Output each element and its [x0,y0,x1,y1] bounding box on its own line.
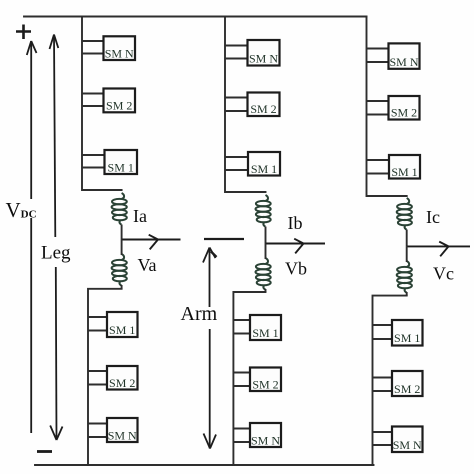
svg-text:SM N: SM N [105,47,134,61]
node B output line with current arrow Ib [266,239,326,254]
submodule SM 1 (phase A upper) [82,150,137,175]
submodule SM N (phase A lower) [88,418,138,443]
DC bus positive rail [24,16,367,18]
arm inductor (phase C lower) [397,261,412,292]
svg-text:SM 1: SM 1 [391,165,417,179]
svg-text:SM 2: SM 2 [252,378,278,392]
submodule SM 2 (phase A lower) [88,366,138,390]
node C output line with current arrow Ic [407,242,470,257]
DC bus negative rail [35,464,374,466]
node A output line with current arrow Ia [122,235,181,250]
submodule SM 1 (phase C lower) [373,320,423,346]
submodule SM 2 (phase B lower) [233,368,281,392]
svg-text:SM N: SM N [251,434,280,448]
svg-text:Arm: Arm [181,303,218,325]
svg-text:SM 2: SM 2 [250,102,276,116]
wire: phase C lower arm bus [373,296,407,465]
arm inductor La (phase A upper) [112,193,127,224]
svg-text:SM 2: SM 2 [106,99,132,113]
submodule SM 2 (phase C upper) [367,96,420,120]
svg-text:Ic: Ic [426,207,440,227]
wire: phase B upper arm bus [225,17,266,193]
svg-text:SM N: SM N [249,52,278,66]
arm inductor (phase A lower) [112,254,127,285]
submodule SM 1 (phase A lower) [88,312,138,337]
svg-text:SM 2: SM 2 [391,106,417,120]
svg-text:Ib: Ib [288,213,303,233]
wire: phase C upper inductor to node [406,230,408,247]
wire: phase A upper inductor to node [121,225,123,240]
svg-text:SM N: SM N [108,429,137,443]
submodule SM 2 (phase B upper) [225,93,280,117]
svg-text:SM 1: SM 1 [109,323,135,337]
wire: phase B upper inductor to node [265,227,267,244]
svg-text:SM 1: SM 1 [251,162,277,176]
submodule SM N (phase C upper) [367,43,420,69]
svg-text:SM N: SM N [393,438,422,452]
arm inductor (phase B lower) [256,258,271,289]
node level dash mark [204,238,244,240]
svg-text:SM N: SM N [389,55,418,69]
submodule SM 2 (phase C lower) [373,371,423,396]
minus terminal symbol [37,450,52,453]
arm inductor (phase B upper) [256,195,271,226]
wire: phase A lower arm bus [88,289,122,465]
svg-text:Leg: Leg [41,243,71,264]
submodule SM N (phase B upper) [225,40,280,66]
wire: phase A upper arm bus [82,17,122,191]
submodule SM 1 (phase C upper) [367,155,421,179]
svg-text:SM 1: SM 1 [252,326,278,340]
submodule SM N (phase A upper) [82,36,135,60]
wire: phase B lower arm bus [233,292,265,465]
svg-text:SM 2: SM 2 [394,382,420,396]
wire: phase C upper arm bus [367,17,407,197]
svg-text:Vc: Vc [433,264,454,284]
submodule SM N (phase B lower) [233,423,281,448]
svg-text:Vb: Vb [285,259,307,279]
wire: node to phase A lower inductor [121,240,123,289]
submodule SM 1 (phase B upper) [225,152,280,176]
wire: node to phase C lower inductor [406,246,408,295]
arm inductor (phase C upper) [397,198,412,229]
submodule SM N (phase C lower) [373,427,423,453]
submodule SM 2 (phase A upper) [82,89,135,113]
svg-text:SM 1: SM 1 [108,161,134,175]
svg-text:Va: Va [138,255,157,275]
plus terminal symbol [16,25,31,40]
Vdc measurement arrow [27,41,37,433]
Arm span double arrow [203,248,217,449]
svg-text:SM 1: SM 1 [394,331,420,345]
svg-text:SM 2: SM 2 [109,376,135,390]
submodule SM 1 (phase B lower) [233,315,281,340]
svg-text:Ia: Ia [133,206,147,226]
wire: node to phase B lower inductor [265,244,267,293]
Leg span double arrow [50,35,63,441]
